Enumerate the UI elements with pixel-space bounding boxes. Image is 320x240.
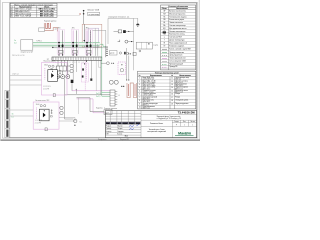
svg-text:Наименование: Наименование [179, 75, 191, 77]
feeder wires to pump A1 [10, 76, 41, 86]
green band bus [33, 42, 100, 46]
meter wire L [83, 24, 85, 47]
circuit table rows [139, 77, 190, 110]
svg-text:Копировал: Копировал [98, 139, 106, 141]
svg-text:XT: XT [163, 45, 165, 47]
QF3 phase wire [86, 30, 88, 55]
feeder green label A2 [12, 113, 14, 118]
svg-text:17: 17 [171, 97, 173, 99]
pump unit A1 enclosure [42, 63, 68, 96]
svg-text:1.1 1.2 1.3 N: 1.1 1.2 1.3 N [43, 86, 50, 88]
svg-text:4: 4 [11, 16, 12, 18]
cable specification table [10, 3, 57, 17]
svg-text:Провод заземления: Провод заземления [169, 52, 184, 54]
control column contacts [82, 68, 84, 70]
svg-text:10: 10 [139, 107, 141, 109]
motor circle M2 [61, 75, 65, 79]
svg-text:Козлов: Козлов [117, 134, 122, 136]
circuit table header [139, 74, 191, 77]
svg-text:1.1 1.2 1.3 N: 1.1 1.2 1.3 N [35, 120, 42, 122]
magenta riser [84, 60, 86, 91]
pump unit A2 neutral dashes [36, 108, 38, 120]
svg-text:Листов: Листов [190, 121, 195, 123]
svg-text:Система отопл. ГВС: Система отопл. ГВС [35, 100, 50, 102]
revision header row [106, 122, 140, 125]
feed red tick [79, 13, 80, 15]
control column dashed wire [86, 64, 88, 81]
svg-text:15: 15 [171, 90, 173, 92]
svg-text:Щит управления местн.: Щит управления местн. [169, 28, 187, 30]
svg-text:ТЗ.440/16-ЭМ: ТЗ.440/16-ЭМ [178, 111, 195, 115]
svg-text:3Рм: 3Рм [86, 28, 89, 30]
svg-text:Зл 1,5: Зл 1,5 [96, 93, 100, 95]
heat module box [136, 42, 152, 49]
motor circle M1 [56, 75, 60, 79]
QF1 phase wire [58, 30, 60, 55]
svg-text:от щита ввода: от щита ввода [89, 14, 100, 16]
green feeder labels [14, 40, 16, 45]
makeup pump box [104, 110, 112, 115]
svg-text:КВВГ 7х1,5: КВВГ 7х1,5 [143, 108, 150, 110]
svg-text:1Рм: 1Рм [58, 28, 61, 30]
svg-text:11: 11 [171, 78, 173, 80]
stage cell [141, 120, 197, 126]
svg-text:Режимная Налет: Режимная Налет [150, 123, 163, 125]
svg-text:Клеммник соединит.: Клеммник соединит. [169, 45, 185, 47]
left margin stamp cells [5, 90, 10, 137]
QF1 device body [59, 50, 63, 53]
svg-text:Р: Р [176, 124, 177, 126]
room panel outline [108, 18, 134, 70]
svg-text:Резерв: Резерв [175, 96, 180, 98]
pump unit A1 top terminals [48, 65, 50, 67]
pump circles P1 P2 [109, 80, 113, 84]
svg-text:Питание ~220В: Питание ~220В [88, 9, 99, 11]
feed terminal box [88, 12, 100, 15]
pump unit A1 terminal text rows [43, 86, 50, 91]
svg-text:Наименование: Наименование [150, 75, 162, 77]
breaker column QF3 outline [85, 30, 92, 55]
aux wires below strip [73, 60, 76, 79]
circuit table grid [138, 71, 196, 109]
svg-text:Условные обозначения: Условные обозначения [168, 6, 188, 8]
svg-text:19: 19 [171, 103, 173, 105]
svg-text:Подпитка: Подпитка [96, 107, 103, 109]
relay wire with contact [90, 60, 92, 78]
svg-text:Н.контр.: Н.контр. [106, 131, 112, 133]
svg-text:12: 12 [171, 81, 173, 83]
svg-text:Лампа сигнальная: Лампа сигнальная [169, 22, 183, 24]
svg-text:Датчик температуры: Датчик температуры [169, 39, 185, 41]
svg-text:Подогрев дренажн.: Подогрев дренажн. [175, 103, 189, 105]
svg-text:Провер.: Провер. [106, 128, 112, 130]
svg-text:Розетка штепсельная: Розетка штепсельная [169, 31, 185, 33]
svg-text:14: 14 [171, 87, 173, 89]
svg-text:Петров: Петров [117, 128, 122, 130]
wire to drain heater [101, 62, 106, 64]
svg-text:Подогрев дренаж.: Подогрев дренаж. [44, 21, 57, 23]
meter enclosure box [82, 24, 102, 47]
svg-text:ЩУ: ЩУ [163, 28, 165, 30]
svg-text:КК: КК [164, 16, 166, 18]
inner drawing frame [10, 3, 197, 138]
pump unit A1 pump starter [48, 70, 58, 82]
riser wires right [127, 48, 129, 80]
legend table grid [161, 5, 196, 70]
input box VRU [21, 40, 33, 51]
wire stubs XT1 to KM1 [58, 60, 65, 66]
legend dark square symbol [163, 31, 166, 33]
meter wire N dashed [89, 30, 91, 44]
terminal strip XT3 [110, 90, 115, 106]
feeder wires to pump A2 [10, 110, 33, 116]
sheet background [0, 0, 200, 141]
signature squiggles [129, 124, 139, 129]
breaker column QF1 outline [57, 30, 64, 55]
svg-text:Насосная группа: Насосная группа [44, 61, 56, 63]
green riser wire [101, 46, 103, 96]
heating cable inner loop [46, 23, 51, 29]
drawing name cell [171, 126, 173, 137]
wire down left [64, 79, 66, 119]
switch SA1 row [114, 30, 119, 32]
revision header dark bar [106, 122, 141, 124]
XT3 right ticks [115, 91, 117, 104]
svg-text:1,5: 1,5 [12, 117, 14, 119]
wires to makeup bus [95, 60, 97, 91]
QF2 phase wire [72, 30, 74, 55]
svg-text:КВВГ 7х1,5 - КИПиА: КВВГ 7х1,5 - КИПиА [15, 15, 32, 18]
svg-text:QF: QF [163, 10, 165, 12]
tick marks mid [76, 89, 78, 94]
PE bus line [52, 47, 105, 49]
svg-text:2.1 2.2 PE: 2.1 2.2 PE [35, 123, 41, 125]
svg-text:Подогрев дренажа: Подогрев дренажа [104, 108, 117, 110]
meter inner box [88, 28, 98, 47]
svg-text:Сидоров: Сидоров [117, 131, 123, 133]
svg-text:Вз.1: Вз.1 [125, 135, 128, 137]
pump unit A2 pump starter [40, 109, 50, 121]
heating cable loop W1 [44, 23, 57, 31]
title block revision grid [105, 111, 141, 138]
lamp HL1 [134, 17, 138, 19]
QF3 tap junctions [86, 42, 88, 44]
makeup pair lower [77, 98, 105, 112]
spare wire pair [95, 43, 97, 56]
QF2 neutral wire [76, 30, 78, 55]
QF1 breaker contacts [58, 45, 60, 47]
svg-text:N PE L1: N PE L1 [37, 41, 42, 43]
pump unit A1 neutral dashes [44, 68, 46, 80]
outer border frame [2, 3, 197, 139]
svg-text:Резерв: Резерв [175, 93, 180, 95]
svg-text:Формат А3: Формат А3 [120, 138, 129, 141]
svg-text:вводное устр. ЩУ: вводное устр. ЩУ [21, 52, 33, 54]
signature row texts [106, 126, 124, 136]
drain heating cable loop W2 [127, 83, 137, 98]
wires from A2 to XT3 [59, 117, 75, 119]
svg-text:HL: HL [163, 22, 165, 24]
QF2 breaker contacts [72, 45, 74, 47]
svg-text:ГИП: ГИП [106, 134, 109, 136]
svg-text:Wh: Wh [163, 25, 165, 27]
control box sensor [120, 69, 123, 72]
svg-text:Зл: Зл [14, 40, 16, 42]
QF3 neutral wire [90, 30, 92, 55]
org name cell [141, 114, 197, 116]
sensor box row [110, 51, 118, 56]
svg-text:Цепи управления: Цепи управления [169, 55, 182, 57]
PE bus start dot [52, 47, 53, 48]
QF3 device body [87, 50, 91, 53]
pump A1 external motors [70, 64, 73, 67]
drain valve device [65, 118, 74, 120]
svg-text:Разраб.: Разраб. [106, 126, 112, 128]
QF3 breaker contacts [86, 45, 88, 47]
svg-text:Иванов: Иванов [117, 126, 122, 128]
svg-text:2.1 2.2 PE: 2.1 2.2 PE [43, 88, 49, 90]
svg-text:18: 18 [171, 100, 173, 102]
socket XS1 row [118, 40, 120, 42]
svg-text:2Рм: 2Рм [72, 28, 75, 30]
svg-text:Светильник НСП: Светильник НСП [169, 37, 182, 39]
wire col3 to room [93, 29, 106, 31]
control magenta box [118, 62, 126, 75]
QF1 neutral wire [62, 30, 64, 55]
svg-text:Наименование: Наименование [176, 8, 188, 10]
svg-text:16: 16 [171, 94, 173, 96]
legend line samples [162, 48, 167, 50]
svg-text:Зл: Зл [12, 113, 14, 115]
title block outline [105, 111, 196, 138]
svg-text:ПВ3 1х4 Ж-З к ГЗШ: ПВ3 1х4 Ж-З к ГЗШ [12, 55, 25, 57]
pump unit A2 enclosure [33, 102, 59, 129]
cable table header text [19, 6, 50, 8]
pump unit A1 side marks [59, 70, 61, 75]
terminal strip XT2 [105, 46, 107, 57]
svg-text:13: 13 [171, 84, 173, 86]
terminal strip XT1 [52, 57, 102, 60]
svg-text:Сеть освещения 220В: Сеть освещения 220В [169, 60, 185, 62]
makeup water bus magenta [72, 90, 110, 92]
QF1 tap junctions [58, 42, 60, 44]
svg-text:Счетчик электроэнерг.: Счетчик электроэнерг. [169, 25, 186, 27]
svg-text:ХВ-40: ХВ-40 [36, 104, 40, 106]
svg-text:от ЩУ гр.1: от ЩУ гр.1 [12, 74, 19, 76]
contactor KM1 [56, 66, 66, 71]
green wires into XT3 [102, 93, 110, 97]
feed node dots [83, 10, 85, 12]
svg-text:Кл.1: Кл.1 [80, 122, 83, 124]
svg-text:1-6: 1-6 [118, 95, 120, 97]
legend row texts [169, 9, 191, 68]
QF2 device body [73, 50, 77, 53]
svg-text:Зл 2,5: Зл 2,5 [96, 96, 100, 98]
meter wire aux [94, 28, 96, 44]
svg-text:Лист: Лист [183, 121, 186, 123]
svg-text:Провод РЕ: Провод РЕ [169, 66, 177, 68]
pump A2 external motors [60, 106, 63, 109]
svg-text:Таблица обозначения цепей: Таблица обозначения цепей [155, 71, 179, 74]
svg-text:0,4: 0,4 [14, 42, 16, 44]
bus extension to XT2 [100, 44, 106, 46]
pump unit A2 top terminals [40, 105, 42, 107]
svg-text:к щиту: к щиту [153, 45, 158, 47]
svg-text:SB: SB [163, 19, 165, 21]
svg-text:Кнопка поста управ.: Кнопка поста управ. [169, 19, 184, 21]
cable table row texts [11, 9, 56, 18]
junction box dark [71, 80, 74, 83]
svg-text:Выключатель освещ.: Выключатель освещ. [169, 34, 185, 36]
svg-text:Тепловое реле защиты: Тепловое реле защиты [169, 16, 187, 18]
logo underline [175, 135, 194, 137]
module stub symbols [139, 50, 141, 52]
svg-text:датчик: датчик [110, 53, 115, 55]
pump unit A2 bottom stub [45, 128, 47, 131]
legend header [162, 7, 188, 10]
wire down mid [77, 98, 79, 114]
drain green labels [96, 93, 100, 98]
meter inner contacts [91, 44, 92, 45]
wire down from junction [71, 83, 73, 91]
control column below strip [81, 63, 88, 82]
wire down right [100, 60, 102, 95]
pump unit A1 bottom stub [53, 94, 55, 97]
makeup water bus black [65, 94, 111, 96]
svg-text:Стадия: Стадия [174, 121, 179, 123]
svg-text:ВВГ 4х1,5 L=25м: ВВГ 4х1,5 L=25м [40, 15, 54, 18]
motor circle M3 [66, 75, 70, 79]
QF2 tap junctions [72, 42, 74, 44]
svg-text:ХВ-40: ХВ-40 [44, 65, 48, 67]
legend symbols [163, 10, 166, 47]
svg-text:Освещение щитов.: Освещение щитов. [175, 100, 189, 102]
svg-text:МакВт: МакВт [178, 132, 192, 136]
signature rows grid [105, 124, 141, 135]
pump unit A2 terminal text rows [35, 120, 42, 125]
breaker column QF2 outline [71, 30, 78, 55]
power feed leader line [58, 15, 81, 17]
junction box XK1 [39, 28, 45, 32]
drain loop inner strokes [129, 84, 135, 96]
pump unit A2 side marks [51, 109, 53, 114]
